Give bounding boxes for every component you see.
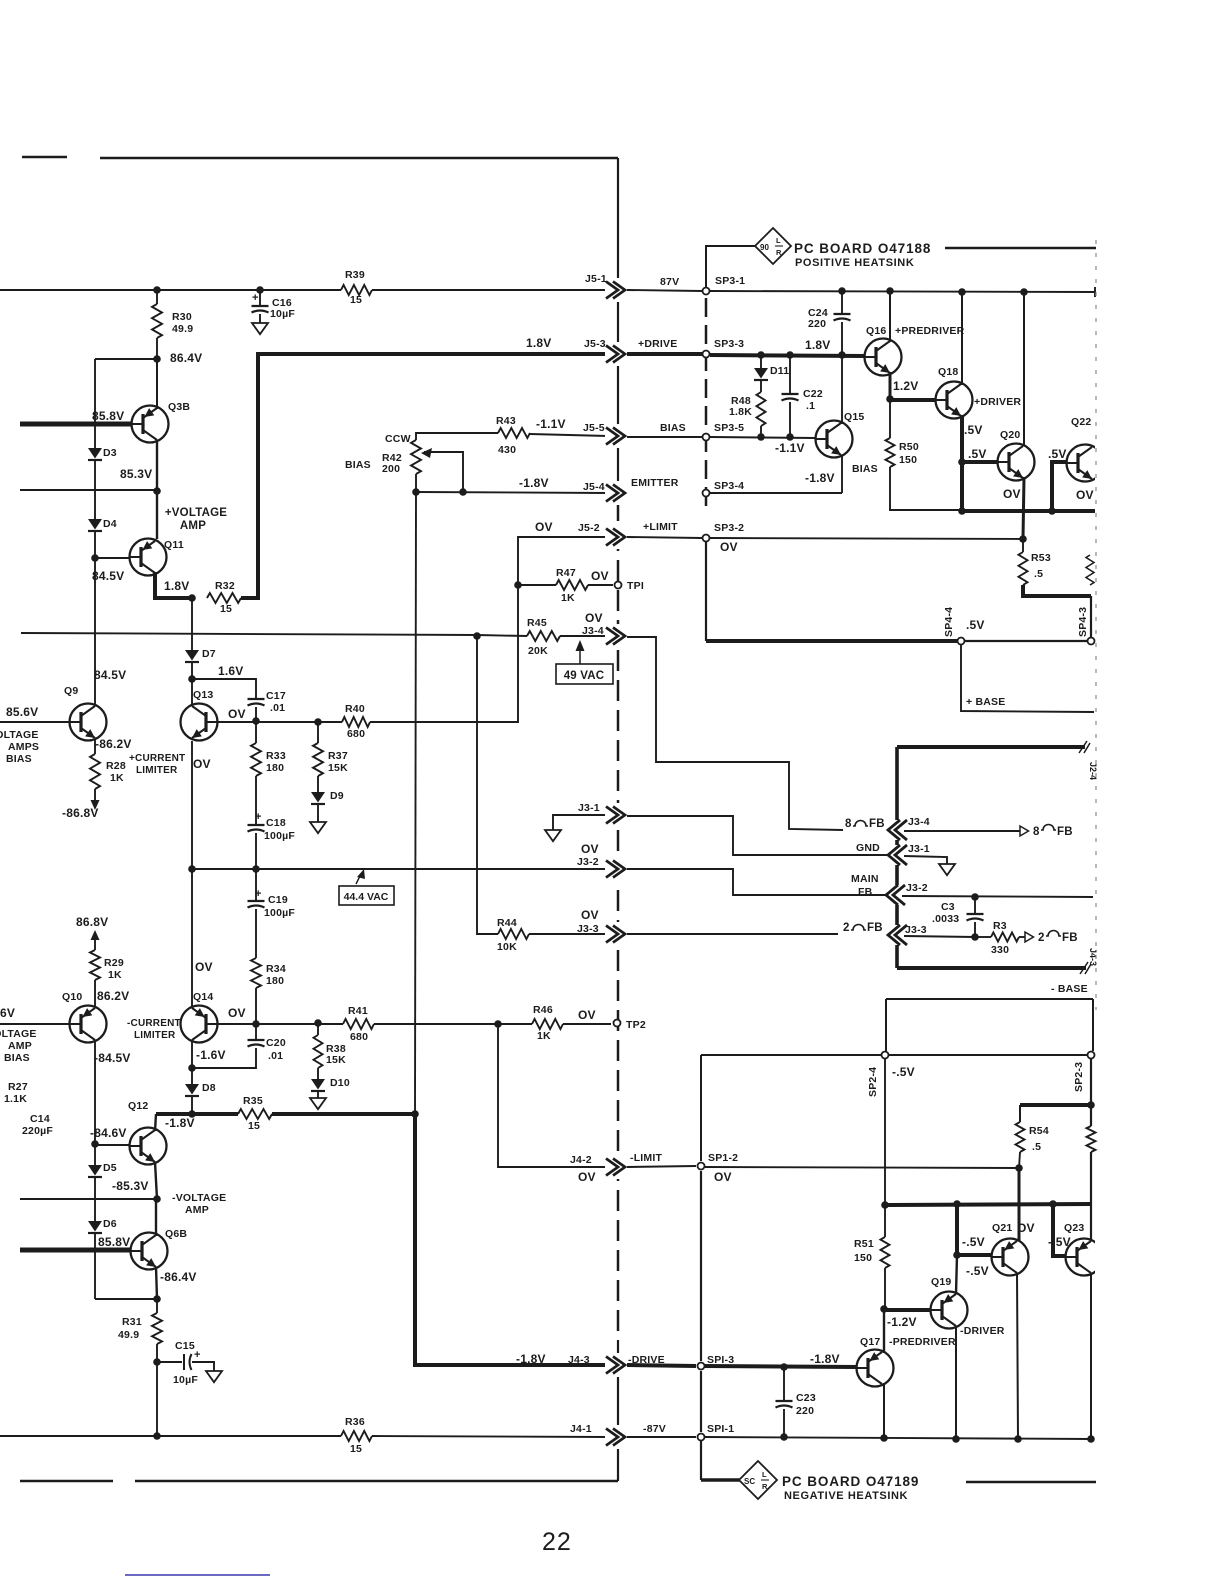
wire SP1 column	[700, 1059, 702, 1161]
connector J4-2	[605, 1155, 626, 1179]
svg-text:SP3-4: SP3-4	[714, 480, 744, 492]
node R53 top junction	[1019, 535, 1027, 543]
node 86.4V junction	[153, 355, 161, 363]
svg-text:Q3B: Q3B	[168, 401, 190, 413]
svg-text:R43: R43	[496, 415, 516, 427]
svg-text:180: 180	[266, 762, 284, 774]
svg-text:R54: R54	[1029, 1125, 1049, 1137]
svg-text:R53: R53	[1031, 552, 1051, 564]
svg-text:85.3V: 85.3V	[120, 467, 152, 481]
svg-text:J3-3: J3-3	[577, 923, 599, 935]
node R44 branch junction	[473, 632, 481, 640]
resistor R28 1K	[90, 754, 100, 789]
open arrow below D10	[317, 1091, 319, 1098]
svg-text:OV: OV	[193, 757, 211, 771]
node Q21 emitter junction	[1014, 1435, 1022, 1443]
wire Q23 base thick	[1053, 1204, 1065, 1256]
terminal SP1-2	[698, 1163, 705, 1170]
svg-text:1.2V: 1.2V	[893, 379, 919, 393]
wire main 49VAC rail	[21, 633, 477, 635]
page top border line	[22, 156, 67, 158]
capacitor C17 .01	[248, 698, 265, 700]
resistor R35 15	[238, 1109, 272, 1119]
svg-text:D7: D7	[202, 648, 216, 660]
wire Q12 collector to R35	[155, 1114, 156, 1131]
svg-text:VOLTAGE: VOLTAGE	[0, 1028, 37, 1040]
svg-text:680: 680	[350, 1031, 368, 1043]
svg-text:L: L	[762, 1470, 767, 1479]
svg-text:.5V: .5V	[968, 447, 987, 461]
wire Q11 emitter junction down to D7	[191, 598, 193, 650]
svg-text:R37: R37	[328, 750, 348, 762]
wire Q13 base row	[217, 721, 342, 723]
svg-text:49 VAC: 49 VAC	[564, 670, 605, 682]
svg-text:-1.8V: -1.8V	[810, 1352, 840, 1366]
svg-text:.0033: .0033	[932, 913, 959, 925]
wire J4-1 to SP1-1	[627, 1436, 696, 1438]
svg-text:1K: 1K	[110, 772, 124, 784]
wire SP4-4 to SP4-3	[965, 640, 1087, 642]
svg-text:D8: D8	[202, 1082, 216, 1094]
diode D5	[94, 1144, 96, 1165]
transistor Q17 -PREDRIVER	[857, 1350, 894, 1387]
resistor R38 15K	[317, 1023, 319, 1035]
wire Q15 emitter	[841, 455, 843, 493]
svg-text:J3-2: J3-2	[577, 856, 599, 868]
svg-text:VOLTAGE: VOLTAGE	[0, 729, 39, 741]
svg-text:OV: OV	[578, 1008, 596, 1022]
board symbol 90 L/R diamond	[755, 228, 791, 264]
svg-text:15K: 15K	[328, 762, 348, 774]
svg-text:SP2-3: SP2-3	[1073, 1062, 1085, 1092]
connector J3-1 left	[605, 803, 626, 827]
svg-text:OV: OV	[720, 540, 738, 554]
wire +BASE stub	[961, 645, 1094, 712]
wire emitter row right	[710, 492, 842, 494]
svg-text:1K: 1K	[108, 969, 122, 981]
svg-text:SP4-3: SP4-3	[1077, 607, 1089, 637]
svg-text:J4-1: J4-1	[570, 1423, 592, 1435]
svg-text:Q9: Q9	[64, 685, 78, 697]
svg-text:-87V: -87V	[643, 1423, 666, 1435]
node Q13 emitter rail junction	[188, 865, 196, 873]
wire Q23 emitter	[1090, 1273, 1092, 1439]
svg-text:R39: R39	[345, 269, 365, 281]
svg-text:Q18: Q18	[938, 366, 958, 378]
svg-text:86.2V: 86.2V	[97, 989, 129, 1003]
resistor R53 .5	[1022, 539, 1024, 552]
node -1.6V	[188, 1064, 196, 1072]
capacitor C23 220	[783, 1367, 785, 1401]
svg-text:+PREDRIVER: +PREDRIVER	[895, 325, 965, 337]
node Q19 emitter junction	[952, 1435, 960, 1443]
svg-text:150: 150	[854, 1252, 872, 1264]
wire SP3-2 to SP4-4 riser	[705, 541, 707, 641]
wire D6 to Q6B emitter row	[94, 1233, 96, 1299]
node OV thick left junction	[881, 1201, 889, 1209]
svg-text:Q10: Q10	[62, 991, 82, 1003]
terminal SP4-4	[958, 638, 965, 645]
svg-text:430: 430	[498, 444, 516, 456]
wire Q6B collector	[155, 1199, 157, 1236]
svg-text:85.8V: 85.8V	[92, 409, 124, 423]
svg-text:OV: OV	[535, 520, 553, 534]
svg-text:R33: R33	[266, 750, 286, 762]
transistor Q20	[998, 444, 1035, 481]
node OV Q22 branch	[1048, 507, 1056, 515]
right torn page edge	[1095, 240, 1097, 1010]
wire SP2 row	[701, 1054, 881, 1056]
svg-text:J5-3: J5-3	[584, 338, 606, 350]
svg-text:OV: OV	[581, 842, 599, 856]
node R42 bottom junction	[415, 474, 417, 492]
svg-text:OV: OV	[1076, 488, 1094, 502]
board symbol SC L/R diamond	[739, 1461, 777, 1499]
wire J3-2 long rail	[192, 868, 608, 870]
svg-text:C3: C3	[941, 901, 955, 913]
svg-text:C17: C17	[266, 690, 286, 702]
svg-text:D10: D10	[330, 1077, 350, 1089]
svg-text:SP3-2: SP3-2	[714, 522, 744, 534]
wire -BASE line	[886, 998, 1093, 1000]
capacitor C15 10uF	[157, 1361, 182, 1363]
svg-text:+: +	[194, 1349, 201, 1361]
wire thick 747 line	[897, 745, 1085, 749]
svg-text:R34: R34	[266, 963, 286, 975]
svg-text:OV: OV	[228, 707, 246, 721]
svg-text:22: 22	[542, 1528, 572, 1556]
wire Q13 emitter column	[191, 741, 193, 869]
connector J3-3 left	[605, 922, 626, 946]
svg-text:-.5V: -.5V	[966, 1264, 989, 1278]
svg-text:J5-4: J5-4	[583, 481, 605, 493]
connector J5-2	[605, 525, 626, 549]
connector J3-2 right	[885, 885, 905, 905]
svg-text:1.6V: 1.6V	[218, 664, 244, 678]
svg-text:+: +	[255, 888, 262, 900]
wire rail to Q14 collector	[191, 869, 193, 1006]
svg-text:J5-2: J5-2	[578, 522, 600, 534]
svg-text:-84.6V: -84.6V	[90, 1126, 127, 1140]
node 85.3V junction	[153, 487, 161, 495]
svg-text:+: +	[252, 292, 259, 304]
svg-text:Q6B: Q6B	[165, 1228, 187, 1240]
resistor R33 180	[255, 721, 257, 743]
wire Q13 collector	[191, 679, 193, 704]
node C23 bottom	[780, 1433, 788, 1441]
svg-text:100µF: 100µF	[264, 907, 295, 919]
wire +87V rail	[0, 289, 341, 291]
svg-text:.01: .01	[270, 702, 285, 714]
svg-text:Q14: Q14	[193, 991, 213, 1003]
svg-text:AMP: AMP	[185, 1204, 209, 1216]
transistor Q12	[130, 1128, 167, 1165]
resistor R30 49.9	[152, 304, 162, 338]
connector J5-3	[605, 342, 626, 366]
transistor Q19	[931, 1292, 968, 1329]
svg-text:330: 330	[991, 944, 1009, 956]
wire Q16 emitter to 1.2V node	[889, 372, 892, 399]
connector J3-1 right	[887, 845, 907, 865]
wire J3-4 staircase to J3-4 right	[627, 637, 843, 830]
node R47 junction	[514, 581, 522, 589]
svg-text:SPI-1: SPI-1	[707, 1423, 734, 1435]
resistor R45 20K	[527, 631, 560, 641]
node R34/C20 junction	[252, 1020, 260, 1028]
wire R50 bottom to OV	[890, 467, 961, 510]
wire J3-2 staircase to MAIN FB	[627, 869, 886, 895]
svg-text:FB: FB	[1062, 932, 1078, 944]
node Q19 collector branch	[953, 1200, 961, 1208]
node R32 left junction	[188, 594, 196, 602]
wire Q3B collector	[156, 359, 158, 409]
svg-text:.01: .01	[268, 1050, 283, 1062]
svg-text:.5: .5	[1032, 1141, 1041, 1153]
wire Q6B base heavy	[20, 1248, 130, 1253]
wire 86.4V to diode chain	[95, 358, 157, 360]
capacitor C16 10uF	[259, 290, 261, 306]
svg-text:- BASE: - BASE	[1051, 983, 1088, 995]
open arrow below D9	[317, 804, 319, 822]
svg-text:180: 180	[266, 975, 284, 987]
connector J3-3 right	[887, 925, 907, 945]
svg-text:10µF: 10µF	[173, 1374, 198, 1386]
svg-text:C15: C15	[175, 1340, 195, 1352]
resistor R50 150	[889, 399, 891, 438]
svg-text:Q19: Q19	[931, 1276, 951, 1288]
resistor R3 330	[991, 933, 1019, 942]
node R31 top junction	[153, 1295, 161, 1303]
terminal SP2-3	[1088, 1052, 1095, 1059]
transistor Q15	[816, 421, 853, 458]
svg-text:.5V: .5V	[966, 618, 985, 632]
node junction Q16 collector	[886, 287, 894, 295]
svg-text:J3-4: J3-4	[582, 625, 604, 637]
svg-text:-85.3V: -85.3V	[112, 1179, 149, 1193]
capacitor C19 100uF	[248, 900, 265, 902]
svg-text:+LIMIT: +LIMIT	[643, 521, 678, 533]
node R36 rail junction	[153, 1432, 161, 1440]
wire Q17 collector	[883, 1309, 885, 1353]
node D11 top	[757, 351, 765, 359]
terminal SP3-4	[703, 490, 710, 497]
wire -BASE drops	[885, 999, 887, 1051]
svg-text:Q20: Q20	[1000, 429, 1020, 441]
wire Q12 emitter	[155, 1162, 157, 1199]
svg-text:8: 8	[845, 818, 852, 830]
resistor R34 180	[255, 869, 257, 901]
resistor R55 unlabeled	[1090, 1105, 1092, 1126]
svg-text:-1.6V: -1.6V	[196, 1048, 226, 1062]
svg-text:R3: R3	[993, 920, 1007, 932]
svg-text:49.9: 49.9	[172, 323, 193, 335]
svg-text:BIAS: BIAS	[6, 753, 32, 765]
node Q23 base branch	[1049, 1200, 1057, 1208]
svg-text:C23: C23	[796, 1392, 816, 1404]
diode D9	[317, 776, 319, 792]
wire SP1 column to diamond	[701, 1478, 740, 1481]
svg-text:LIMITER: LIMITER	[136, 765, 178, 776]
svg-text:200: 200	[382, 463, 400, 475]
diode D10	[317, 1068, 319, 1079]
svg-text:+DRIVE: +DRIVE	[638, 338, 677, 350]
wire Q21 collector thick	[1018, 1168, 1021, 1241]
node R35 riser junction	[411, 1110, 419, 1118]
node wiper bottom junction	[459, 488, 467, 496]
svg-text:SP1-2: SP1-2	[708, 1152, 738, 1164]
svg-text:R30: R30	[172, 311, 192, 323]
wire BIAS row SP3-5	[627, 436, 702, 438]
node C24 bottom	[838, 351, 846, 359]
wire Q3B base heavy	[20, 422, 131, 427]
wire CCW top link	[416, 433, 498, 440]
wire R41 to R46	[374, 1023, 532, 1025]
torn resistor remnant right edge	[1086, 555, 1094, 585]
wire J3-3 right to R3	[904, 936, 975, 937]
node OV left	[958, 507, 966, 515]
svg-text:AMPS: AMPS	[8, 741, 39, 753]
svg-text:AMP: AMP	[8, 1040, 32, 1052]
wire Q15 collector	[841, 355, 843, 424]
terminal SP3-3	[703, 351, 710, 358]
wire Q19 emitter	[955, 1326, 957, 1439]
resistor R41 680	[343, 1019, 374, 1029]
wire -LIMIT to R54	[705, 1167, 1019, 1168]
node R38 junction	[314, 1019, 322, 1027]
node C3 top	[971, 893, 979, 901]
svg-text:Q23: Q23	[1064, 1222, 1084, 1234]
transistor Q13	[181, 704, 218, 741]
connector J4-3	[605, 1353, 626, 1377]
wire Q9 emitter to R28	[94, 738, 96, 754]
transistor Q9	[70, 704, 107, 741]
node 1.6V junction	[191, 662, 193, 679]
ground below C16	[252, 323, 268, 334]
svg-text:PC BOARD O47189: PC BOARD O47189	[782, 1474, 919, 1489]
wire R35 to J4-3 riser thick	[272, 1112, 415, 1116]
wire Q19 collector entry	[956, 1255, 957, 1294]
node C19 top	[252, 865, 260, 873]
svg-text:15: 15	[248, 1120, 260, 1132]
wire x415 riser thick down	[415, 1114, 608, 1365]
wire Q11 emitter thick loop with R32	[155, 572, 192, 598]
wire C20 to -1.6V node	[192, 1048, 256, 1068]
wire R44 drop column	[477, 636, 498, 934]
node R48 bottom	[757, 433, 765, 441]
svg-text:2: 2	[843, 922, 850, 934]
resistor R29 1K	[90, 950, 100, 980]
svg-text:10µF: 10µF	[270, 308, 295, 320]
wire D4 to Q9	[94, 531, 96, 704]
wire J4-2 to SP1-2	[627, 1166, 696, 1167]
svg-text:J4-3: J4-3	[568, 1354, 590, 1366]
svg-text:C14: C14	[30, 1113, 50, 1125]
svg-text:+DRIVER: +DRIVER	[974, 396, 1021, 408]
svg-text:-1.1V: -1.1V	[775, 441, 805, 455]
svg-text:J3-2: J3-2	[906, 882, 928, 894]
svg-text:Q22: Q22	[1071, 416, 1091, 428]
resistor R48 1.8K	[760, 380, 762, 392]
wire Q10 base	[0, 1023, 69, 1025]
svg-text:LIMITER: LIMITER	[134, 1030, 176, 1041]
svg-text:OV: OV	[585, 611, 603, 625]
wire title underline segment	[945, 247, 1096, 250]
svg-text:-LIMIT: -LIMIT	[630, 1152, 662, 1164]
testpoint TP1	[615, 582, 622, 589]
wire Q3B emitter to Q11	[156, 491, 158, 539]
svg-text:SP3-1: SP3-1	[715, 275, 745, 287]
svg-text:C18: C18	[266, 817, 286, 829]
svg-text:+VOLTAGE: +VOLTAGE	[165, 507, 227, 519]
wire Q22 base branch	[1052, 462, 1066, 511]
svg-text:R35: R35	[243, 1095, 263, 1107]
wire -DRIVE thick right	[704, 1366, 856, 1367]
svg-text:1K: 1K	[537, 1030, 551, 1042]
svg-text:84.5V: 84.5V	[94, 668, 126, 682]
wire Q3B emitter	[156, 440, 158, 491]
resistor R47 1K	[556, 580, 588, 590]
svg-text:TPI: TPI	[627, 580, 644, 592]
capacitor C24 220	[841, 291, 843, 314]
svg-text:8: 8	[1033, 826, 1040, 838]
svg-text:D5: D5	[103, 1162, 117, 1174]
terminal SP3-1	[703, 288, 710, 295]
resistor R31 49.9	[156, 1299, 158, 1313]
terminal SP1-3	[698, 1363, 705, 1370]
wire 8FB arrow right	[904, 830, 1020, 832]
wire Q19 base thick	[884, 1308, 930, 1312]
node junction R30 top	[153, 286, 161, 294]
svg-text:R: R	[762, 1482, 768, 1491]
wire J4-3 to SP1-3	[627, 1365, 696, 1366]
connector J5-1	[605, 278, 626, 302]
svg-text:+ BASE: + BASE	[966, 696, 1005, 708]
svg-text:86.8V: 86.8V	[76, 915, 108, 929]
chevron column thick verticals	[895, 747, 899, 968]
svg-text:-.5V: -.5V	[962, 1235, 985, 1249]
connector J3-4 right	[887, 820, 907, 840]
wire Q16 collector	[889, 291, 891, 342]
wire R36 rail	[0, 1435, 341, 1437]
wire Q21 base thick	[957, 1253, 991, 1257]
node Q23 emitter junction	[1087, 1435, 1095, 1443]
svg-text:L: L	[776, 236, 781, 245]
svg-text:R31: R31	[122, 1316, 142, 1328]
transistor Q6B	[131, 1233, 168, 1270]
svg-text:44.4 VAC: 44.4 VAC	[344, 891, 389, 903]
node Q18 emitter junction	[958, 458, 966, 466]
svg-text:-1.8V: -1.8V	[165, 1116, 195, 1130]
wire Q9 base	[0, 721, 69, 723]
svg-text:D6: D6	[103, 1218, 117, 1230]
diode D3	[94, 359, 96, 448]
terminal SP3-5	[703, 434, 710, 441]
svg-text:90: 90	[760, 243, 769, 252]
svg-text:C19: C19	[268, 894, 288, 906]
svg-text:+: +	[255, 811, 262, 823]
node Q12 base tap	[91, 1140, 99, 1148]
wire SP1-2 riser	[700, 1055, 702, 1161]
node junction Q18 collector	[958, 288, 966, 296]
arrow -86.8V	[94, 789, 96, 800]
svg-text:PC BOARD O47188: PC BOARD O47188	[794, 241, 931, 256]
diode D6	[94, 1177, 96, 1221]
svg-text:-86.2V: -86.2V	[95, 737, 132, 751]
diode D4	[94, 460, 96, 519]
svg-text:87V: 87V	[660, 276, 679, 288]
wire Q18 emitter thick	[960, 415, 964, 462]
wire -87V row right	[705, 1437, 1091, 1439]
